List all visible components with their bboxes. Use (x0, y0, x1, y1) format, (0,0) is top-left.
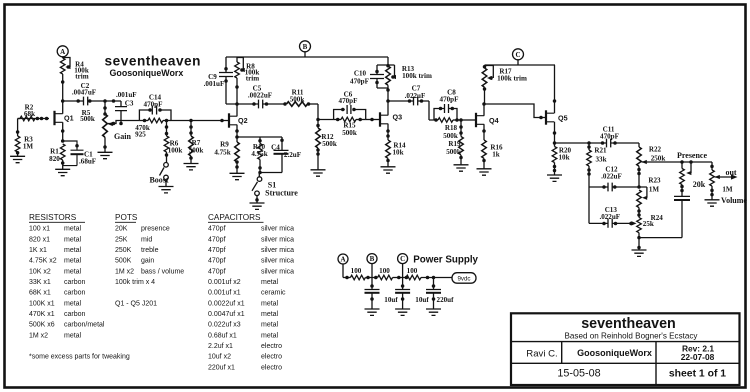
svg-text:presence: presence (141, 226, 170, 233)
svg-text:2.2uf x1: 2.2uf x1 (208, 343, 233, 350)
svg-text:500K x6: 500K x6 (29, 322, 55, 329)
capacitor C11 470pF (555, 126, 640, 148)
svg-text:seventheaven: seventheaven (105, 54, 202, 69)
ground under R1/C1 (55, 169, 70, 175)
svg-text:220uf: 220uf (437, 296, 455, 304)
svg-text:500k: 500k (446, 148, 461, 156)
structure switch S1 (252, 173, 298, 204)
power supply node B circle (367, 254, 377, 278)
supply resistor 100 (2) (365, 267, 392, 280)
svg-text:R9: R9 (220, 140, 229, 148)
svg-text:CAPACITORS: CAPACITORS (208, 213, 261, 222)
title block box (511, 313, 740, 385)
supply rail B (226, 56, 388, 58)
svg-text:0.001uf x1: 0.001uf x1 (208, 290, 241, 297)
svg-text:500K: 500K (115, 258, 132, 265)
svg-text:820 x1: 820 x1 (29, 236, 50, 243)
svg-text:25K: 25K (115, 236, 128, 243)
svg-text:10uf: 10uf (415, 296, 429, 304)
capacitor C7 .022uF (388, 85, 434, 120)
svg-text:1M x2: 1M x2 (29, 332, 48, 339)
svg-text:2.2uF: 2.2uF (284, 151, 301, 159)
filter capacitor 220uf electro (426, 278, 454, 310)
svg-text:470pf: 470pf (208, 247, 226, 254)
svg-text:33k: 33k (595, 155, 606, 163)
svg-text:1k: 1k (492, 151, 500, 159)
parallel block C10/R13 top bar (377, 57, 395, 92)
svg-text:silver mica: silver mica (261, 268, 294, 275)
svg-text:gain: gain (141, 258, 154, 265)
svg-text:470pf: 470pf (208, 236, 226, 243)
svg-text:1M: 1M (722, 185, 733, 193)
resistor R18 500k (434, 118, 461, 141)
svg-text:10uf: 10uf (384, 296, 398, 304)
resistor R7 500k (189, 121, 204, 164)
svg-text:carbon: carbon (64, 290, 86, 297)
svg-text:.022uF: .022uF (601, 172, 622, 180)
svg-text:20K: 20K (115, 226, 128, 233)
parts list capacitors (208, 213, 294, 371)
svg-text:Q4: Q4 (489, 116, 499, 125)
svg-text:carbon: carbon (64, 279, 86, 286)
svg-text:100: 100 (407, 267, 418, 275)
ground under R20 (547, 175, 562, 181)
resistor R3 1M (15, 136, 33, 157)
svg-text:*some excess parts for tweakin: *some excess parts for tweaking (29, 354, 130, 361)
trim resistor R4 100k (60, 57, 88, 101)
svg-text:4.75k: 4.75k (214, 148, 230, 156)
svg-text:470pF: 470pF (339, 97, 358, 105)
svg-text:500k: 500k (290, 96, 305, 104)
svg-text:metal: metal (64, 268, 82, 275)
svg-text:4.75k: 4.75k (251, 150, 267, 158)
svg-text:1K x1: 1K x1 (29, 247, 47, 254)
svg-text:Q1: Q1 (64, 114, 74, 123)
wire to Q4 gate (459, 118, 476, 122)
capacitor C13 .022uF (589, 187, 637, 228)
svg-text:10k: 10k (392, 148, 403, 156)
resistor R21 33k (587, 143, 607, 187)
svg-text:POTS: POTS (115, 213, 138, 222)
ground under R9 (230, 173, 245, 179)
bass pot R23 1M (637, 176, 661, 217)
svg-text:metal: metal (261, 279, 279, 286)
transistor Q4 J201 (476, 102, 499, 136)
node A terminal circle (57, 46, 68, 57)
svg-text:metal: metal (64, 332, 82, 339)
svg-text:B: B (303, 43, 308, 51)
svg-text:silver mica: silver mica (261, 226, 294, 233)
svg-text:500k: 500k (189, 146, 204, 154)
svg-text:R18: R18 (445, 124, 458, 132)
svg-text:100K x1: 100K x1 (29, 300, 55, 307)
ground under boost switch (159, 187, 174, 193)
svg-text:R21: R21 (594, 146, 607, 154)
resistor R20 10k (552, 141, 571, 175)
svg-text:.0047uF: .0047uF (72, 89, 96, 97)
svg-text:500k: 500k (322, 140, 337, 148)
svg-text:.68uF: .68uF (79, 158, 96, 166)
svg-text:bass / volume: bass / volume (141, 268, 184, 275)
filter capacitor 10uf (2) electro (395, 278, 429, 310)
svg-text:220uf x1: 220uf x1 (208, 364, 235, 371)
svg-text:carbon/metal: carbon/metal (64, 322, 105, 329)
supply rail C (485, 64, 556, 66)
svg-text:4.75K x2: 4.75K x2 (29, 258, 57, 265)
power supply node C circle (398, 254, 408, 278)
ground under tone stack (632, 250, 647, 256)
trim resistor R17 100k (482, 65, 527, 104)
wire corner to R15 node (316, 104, 333, 121)
svg-text:trim: trim (246, 74, 259, 82)
svg-text:500k: 500k (342, 129, 357, 137)
svg-text:mid: mid (141, 236, 152, 243)
svg-text:electro: electro (261, 343, 282, 350)
svg-text:ceramic: ceramic (261, 290, 286, 297)
svg-text:treble: treble (141, 247, 159, 254)
svg-text:.022uF: .022uF (599, 213, 620, 221)
svg-text:10uf x2: 10uf x2 (208, 354, 231, 361)
output wire with arrow (715, 168, 738, 180)
svg-text:B: B (370, 255, 375, 263)
svg-text:RESISTORS: RESISTORS (29, 213, 77, 222)
node B terminal circle (300, 41, 311, 57)
resistor 470k 925 (135, 118, 171, 138)
transistor Q2 J201 (229, 102, 248, 137)
svg-text:20k: 20k (693, 180, 706, 189)
svg-text:Based on Reinhold Bogner's Ecs: Based on Reinhold Bogner's Ecstacy (565, 331, 699, 340)
resistor R19 500k (446, 120, 463, 165)
svg-text:.0022uF: .0022uF (248, 92, 272, 100)
svg-text:33K x1: 33K x1 (29, 279, 51, 286)
svg-text:820: 820 (49, 155, 60, 163)
wire to Q3 gate (366, 118, 380, 122)
ground under 10uf (2) (395, 309, 410, 315)
node C terminal circle (513, 49, 524, 65)
svg-text:10k: 10k (558, 154, 569, 162)
svg-text:1M: 1M (649, 185, 660, 193)
gain pot R5 500k (80, 101, 131, 152)
mid pot R24 25k (630, 214, 664, 250)
svg-text:470pf: 470pf (208, 226, 226, 233)
svg-text:100k trim: 100k trim (402, 72, 432, 80)
parts list resistors (29, 213, 130, 361)
svg-text:electro: electro (261, 354, 282, 361)
svg-text:metal: metal (261, 311, 279, 318)
resistor R1 820 (49, 139, 65, 169)
svg-text:silver mica: silver mica (261, 236, 294, 243)
svg-text:electro: electro (261, 364, 282, 371)
svg-text:1M x2: 1M x2 (115, 268, 134, 275)
capacitor C2 .0047uF (63, 82, 121, 105)
ground under R12 (311, 170, 326, 176)
supply resistor 100 (1) (343, 267, 365, 280)
trim resistor R13 100k (386, 65, 432, 101)
svg-text:68K x1: 68K x1 (29, 290, 51, 297)
svg-text:C4: C4 (271, 144, 280, 152)
resistor R10 4.75k (237, 137, 282, 174)
svg-text:sheet 1 of 1: sheet 1 of 1 (669, 368, 726, 379)
svg-text:C: C (400, 255, 405, 263)
transistor Q1 J201 (55, 99, 74, 141)
svg-text:470pF: 470pF (600, 133, 619, 141)
resistor R14 10k (386, 134, 406, 167)
svg-text:Q5: Q5 (558, 113, 568, 122)
filter capacitor 10uf (1) electro (365, 278, 399, 310)
svg-text:A: A (340, 255, 345, 263)
svg-text:Q3: Q3 (393, 113, 403, 122)
svg-text:Structure: Structure (265, 188, 298, 197)
boost switch (149, 163, 168, 187)
capacitor C3 .001uF (115, 91, 137, 124)
svg-text:500k: 500k (80, 115, 95, 123)
svg-text:metal: metal (64, 247, 82, 254)
presence electro capacitor (639, 196, 690, 237)
svg-text:.022uF: .022uF (405, 92, 426, 100)
svg-text:9vdc: 9vdc (457, 276, 470, 283)
power supply node A circle (338, 254, 348, 278)
presence pot 20k (680, 162, 706, 196)
capacitor C5 .0022uF (237, 85, 285, 109)
svg-text:Power Supply: Power Supply (413, 255, 478, 266)
svg-text:out: out (725, 168, 736, 177)
svg-text:100: 100 (351, 267, 362, 275)
svg-text:0.022uf x3: 0.022uf x3 (208, 322, 241, 329)
supply resistor 100 (3) (393, 267, 452, 280)
svg-text:100k trim x 4: 100k trim x 4 (115, 279, 155, 286)
svg-text:GoosoniqueWorx: GoosoniqueWorx (577, 348, 652, 358)
svg-text:470pF: 470pF (144, 100, 163, 108)
svg-text:trim: trim (75, 73, 88, 81)
svg-text:seventheaven: seventheaven (581, 316, 676, 332)
svg-text:C3: C3 (125, 99, 134, 107)
svg-text:metal: metal (64, 300, 82, 307)
capacitor C1 .68uF electro (63, 141, 96, 166)
capacitor C12 .022uF (589, 165, 647, 200)
svg-text:Ravi C.: Ravi C. (526, 349, 557, 360)
ground under R7 (184, 164, 199, 170)
ground under R16 (477, 169, 492, 175)
ground under volume pot (705, 200, 720, 206)
wire R17/Q4 drain to Q5 gate (485, 104, 547, 119)
svg-text:.001uF: .001uF (116, 91, 137, 99)
svg-text:925: 925 (135, 131, 146, 139)
parts list capacitors underline (208, 221, 264, 223)
ground under gain pot (98, 152, 113, 158)
svg-text:Boost: Boost (149, 176, 168, 185)
svg-text:metal: metal (64, 236, 82, 243)
9vdc supply terminal (452, 273, 476, 284)
svg-text:15-05-08: 15-05-08 (557, 367, 600, 379)
svg-text:250k: 250k (651, 154, 666, 162)
svg-text:10K x2: 10K x2 (29, 268, 51, 275)
svg-text:100 x1: 100 x1 (29, 226, 50, 233)
capacitor C10 470pF (350, 65, 384, 88)
capacitor C9 .001uF (204, 57, 237, 104)
svg-text:C: C (515, 51, 520, 59)
svg-text:250K: 250K (115, 247, 132, 254)
transistor Q3 J201 (380, 99, 402, 136)
svg-text:470pf: 470pf (208, 268, 226, 275)
svg-text:silver mica: silver mica (261, 258, 294, 265)
svg-text:470pF: 470pF (350, 78, 369, 86)
svg-text:Q1 - Q5 J201: Q1 - Q5 J201 (115, 300, 157, 307)
capacitor C6 470pF (334, 91, 366, 120)
ground under R14 (381, 167, 396, 173)
svg-text:470pF: 470pF (440, 96, 459, 104)
parts list pots underline (115, 221, 136, 223)
volume pot 1M (710, 162, 748, 205)
svg-text:100: 100 (379, 267, 390, 275)
svg-text:470pf: 470pf (208, 258, 226, 265)
resistor R12 500k (316, 120, 337, 170)
svg-text:0.68uf x1: 0.68uf x1 (208, 332, 237, 339)
svg-text:100k: 100k (168, 147, 183, 155)
svg-text:.001uF: .001uF (204, 80, 225, 88)
svg-text:Q2: Q2 (238, 116, 248, 125)
transistor Q5 J201 (546, 65, 568, 143)
svg-text:Volume: Volume (721, 196, 747, 205)
ground under R19 (454, 165, 469, 171)
resistor R9 4.75k (214, 135, 239, 173)
svg-text:Gain: Gain (114, 132, 131, 141)
ground under 220uf (426, 309, 441, 315)
svg-text:R22: R22 (649, 145, 662, 153)
resistor R6 100k (164, 121, 182, 163)
svg-text:GoosoniqueWorx: GoosoniqueWorx (110, 68, 184, 78)
svg-text:68k: 68k (24, 110, 35, 118)
svg-text:1M: 1M (23, 143, 34, 151)
capacitor C8 470pF (434, 89, 458, 120)
wire to Q2 gate (171, 119, 229, 123)
capacitor C4 2.2uF electro (260, 137, 301, 173)
svg-text:0.001uf x2: 0.001uf x2 (208, 279, 241, 286)
treble pot R22 250k (637, 143, 666, 187)
ground under 10uf (1) (365, 309, 380, 315)
trim resistor R8 100k (235, 57, 260, 104)
wiper wire to C14 block (108, 121, 140, 126)
svg-text:C10: C10 (354, 70, 367, 78)
svg-text:22-07-08: 22-07-08 (681, 352, 715, 362)
svg-text:R19: R19 (448, 140, 461, 148)
resistor R11 500k (283, 89, 318, 107)
svg-text:Presence: Presence (677, 151, 708, 160)
svg-text:500k: 500k (443, 132, 458, 140)
svg-text:carbon: carbon (64, 311, 86, 318)
svg-text:silver mica: silver mica (261, 247, 294, 254)
ground under S1 (250, 203, 265, 209)
svg-text:metal: metal (261, 322, 279, 329)
ground under R3 (10, 156, 25, 162)
svg-text:25k: 25k (643, 220, 654, 228)
resistor R16 1k (482, 136, 503, 169)
input gate wire with junction (16, 117, 49, 136)
svg-text:0.0047uf x1: 0.0047uf x1 (208, 311, 245, 318)
svg-text:0.0022uf x1: 0.0022uf x1 (208, 300, 245, 307)
svg-text:470K x1: 470K x1 (29, 311, 55, 318)
svg-text:100k trim: 100k trim (497, 75, 527, 83)
svg-text:R23: R23 (648, 176, 661, 184)
parts list resistors underline (29, 221, 85, 223)
resistor R15 500k (334, 117, 366, 137)
svg-text:metal: metal (261, 332, 279, 339)
svg-text:metal: metal (64, 226, 82, 233)
capacitor C14 470pF (139, 94, 171, 121)
svg-text:metal: metal (64, 258, 82, 265)
presence feed wire (642, 151, 712, 164)
resistor R2 68k (18, 103, 44, 120)
parts list pots (115, 213, 184, 307)
svg-text:metal: metal (261, 300, 279, 307)
svg-text:A: A (60, 48, 65, 56)
